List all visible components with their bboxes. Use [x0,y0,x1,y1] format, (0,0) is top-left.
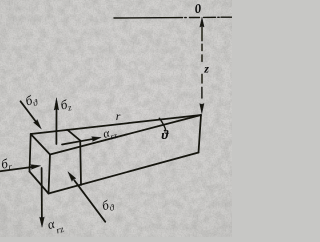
arrowhead up at origin [200,18,204,28]
paper background [0,0,232,237]
arrowhead down at wedge apex [200,104,204,114]
arrow sigma-theta bottom (points up-left into front face) [74,180,105,222]
angle theta arc at apex [159,118,165,130]
wedge: right knife edge [199,115,202,153]
wedge: back-top edge r [31,115,201,134]
z dimension line (dashed) from origin to wedge apex [201,27,203,98]
box left face: front vertical edge [49,155,51,194]
box left face: back vertical edge [30,134,31,172]
svg-text:r: r [116,109,121,123]
horizontal dash-dot centerline through origin 0 [114,16,232,19]
box left face: top edge [31,134,50,155]
wedge: front-top edge [50,115,201,155]
arrow tau-rz bottom (down from left face centre) [41,168,43,220]
arrow tau-rz on top face (points right) [62,139,95,145]
wedge: bottom-front edge [49,153,199,194]
arrow sigma-r (points right into left face) [0,167,32,171]
arrow sigma-z (up) [55,106,57,144]
box right section: top face diagonal [67,130,80,141]
arrow sigma-theta top (points into box) [21,101,37,122]
box left face: bottom edge [30,172,49,194]
svg-text:z: z [203,62,209,76]
box right section: front face vertical [79,141,82,186]
svg-text:ϑ: ϑ [162,127,170,142]
